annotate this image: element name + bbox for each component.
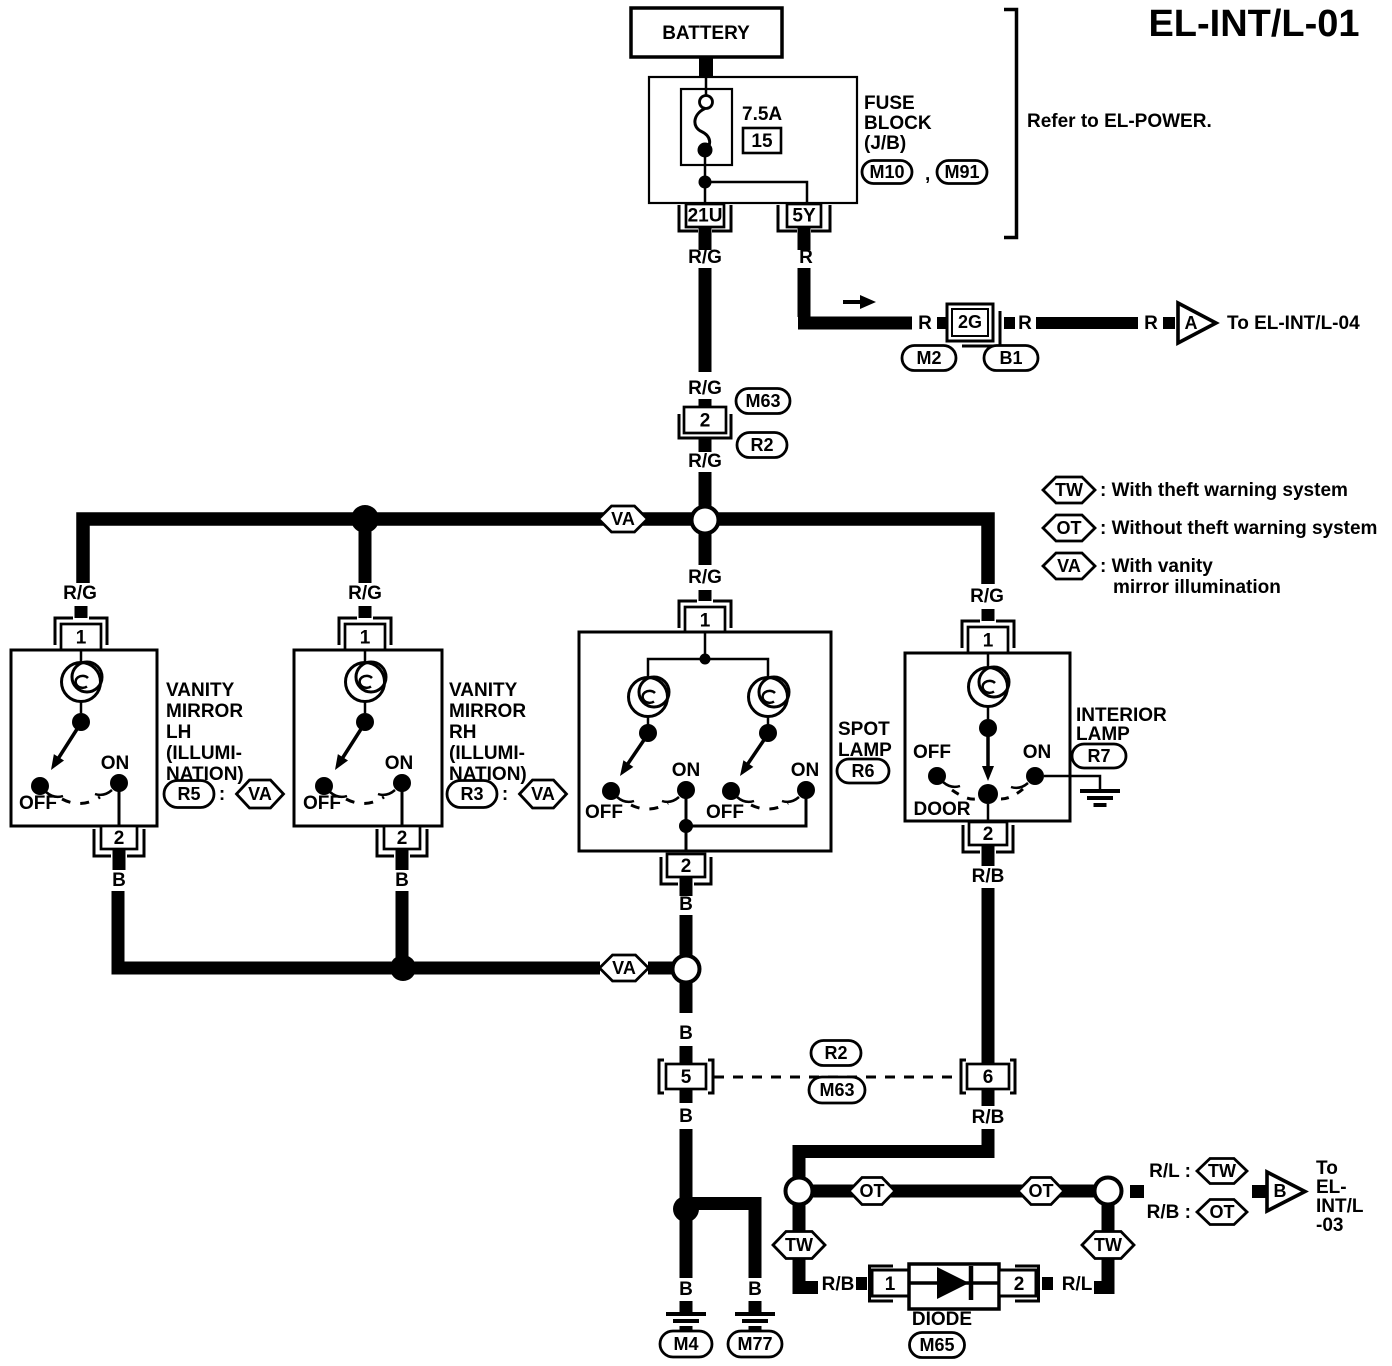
svg-text:VA: VA bbox=[611, 509, 635, 529]
connector pin 2 LH vanity bbox=[94, 826, 144, 856]
ON contacts common wire bbox=[686, 790, 806, 851]
svg-text:R/B: R/B bbox=[822, 1274, 855, 1295]
option VA for R3 bbox=[520, 780, 567, 808]
svg-text:(J/B): (J/B) bbox=[864, 133, 906, 154]
off-page arrow A bbox=[1178, 303, 1216, 343]
svg-text:: With vanity: : With vanity bbox=[1100, 556, 1213, 577]
svg-text:2: 2 bbox=[1014, 1274, 1025, 1295]
OFF contact bbox=[31, 777, 49, 795]
switch pivot right bbox=[759, 724, 777, 742]
svg-text:ON: ON bbox=[672, 760, 701, 781]
wire B down bbox=[680, 1129, 693, 1198]
svg-text:R/G: R/G bbox=[348, 583, 382, 604]
svg-text:M4: M4 bbox=[673, 1334, 698, 1354]
diode M65 bbox=[870, 1264, 1039, 1309]
svg-text:M63: M63 bbox=[745, 391, 780, 411]
connector label R2 bbox=[737, 433, 787, 458]
wire R/B elbow to splice bbox=[799, 1129, 988, 1177]
splice circle left bbox=[786, 1178, 813, 1205]
wire TW branch right bbox=[1094, 1205, 1108, 1288]
svg-text:LH: LH bbox=[166, 722, 191, 743]
svg-text:OT: OT bbox=[1210, 1202, 1235, 1222]
svg-text:VANITY: VANITY bbox=[449, 680, 518, 701]
connector pin 1 spot lamp bbox=[679, 601, 731, 633]
svg-text:TW: TW bbox=[1208, 1161, 1236, 1181]
stub square bbox=[856, 1277, 867, 1290]
svg-text:: With theft warning system: : With theft warning system bbox=[1100, 480, 1348, 501]
connector pin 2 interior lamp bbox=[963, 822, 1013, 852]
svg-text:FUSE: FUSE bbox=[864, 93, 915, 114]
legend TW symbol bbox=[1043, 477, 1095, 503]
OFF contact left bbox=[602, 782, 620, 800]
connector pin 1 LH vanity bbox=[55, 618, 107, 650]
svg-text:OT: OT bbox=[860, 1181, 885, 1201]
DOOR contact common bbox=[978, 784, 998, 804]
svg-text:VANITY: VANITY bbox=[166, 680, 235, 701]
svg-text:R/G: R/G bbox=[688, 247, 722, 268]
junction dot spot lamp bbox=[700, 654, 711, 665]
wire R bbox=[1036, 317, 1138, 329]
ON contact right bbox=[797, 781, 815, 799]
svg-text:A: A bbox=[1185, 313, 1198, 333]
option VA for R5 bbox=[237, 780, 284, 808]
svg-text:R2: R2 bbox=[824, 1043, 847, 1063]
svg-text:R/B: R/B bbox=[972, 866, 1005, 887]
ON contact left bbox=[677, 781, 695, 799]
svg-text:B: B bbox=[679, 1106, 693, 1127]
wire TW branch left bbox=[799, 1205, 818, 1288]
svg-text:R/B: R/B bbox=[972, 1107, 1005, 1128]
stub square bbox=[1252, 1185, 1266, 1198]
bus B bottom left bbox=[118, 891, 600, 968]
svg-text:OFF: OFF bbox=[303, 793, 341, 814]
connector label M65 bbox=[910, 1333, 965, 1358]
bulb spot lamp right bbox=[749, 677, 790, 717]
wire to 5Y inside fuse block bbox=[705, 182, 807, 203]
option TW right bbox=[1082, 1232, 1134, 1259]
splice circle right bbox=[1095, 1178, 1122, 1205]
connector label M63 bbox=[809, 1077, 865, 1103]
svg-text:1: 1 bbox=[360, 628, 371, 649]
switch arm with arrow bbox=[340, 726, 363, 762]
svg-text:B: B bbox=[395, 870, 409, 891]
svg-text:B1: B1 bbox=[999, 348, 1022, 368]
wire R/G trunk bbox=[699, 268, 712, 372]
wire stub bbox=[699, 438, 712, 452]
bus R/G top bbox=[83, 519, 988, 584]
svg-text:2: 2 bbox=[681, 856, 692, 877]
connector label M63 bbox=[736, 389, 790, 414]
direction arrow bbox=[843, 295, 876, 309]
connector label M2 bbox=[902, 346, 956, 371]
wire stub bbox=[396, 849, 409, 870]
junction dot top bus bbox=[351, 505, 379, 533]
wire stub bbox=[113, 849, 126, 870]
svg-text:VA: VA bbox=[531, 784, 555, 804]
fuse block J/B bbox=[649, 77, 857, 203]
svg-text:R6: R6 bbox=[851, 761, 874, 781]
svg-text:VA: VA bbox=[1057, 556, 1081, 576]
wire ON to ground bbox=[1044, 776, 1100, 790]
splice circle top bus bbox=[692, 507, 719, 534]
svg-text:: Without theft warning syste: : Without theft warning system bbox=[1100, 518, 1377, 539]
svg-text:R/B :: R/B : bbox=[1147, 1202, 1191, 1223]
connector label R7 bbox=[1072, 744, 1126, 768]
svg-text:B: B bbox=[112, 870, 126, 891]
ground M77 bbox=[735, 1314, 775, 1328]
svg-text:(ILLUMI-: (ILLUMI- bbox=[449, 743, 525, 764]
ON contact bbox=[1026, 767, 1044, 785]
svg-text:1: 1 bbox=[700, 611, 711, 632]
ground stub M77 bbox=[749, 1301, 762, 1313]
svg-text:,: , bbox=[925, 164, 930, 185]
svg-text:OFF: OFF bbox=[913, 742, 951, 763]
svg-text:R3: R3 bbox=[460, 784, 483, 804]
connector pin 1 interior lamp bbox=[962, 621, 1014, 653]
stub square bbox=[937, 317, 948, 329]
svg-text:INT/L: INT/L bbox=[1316, 1196, 1364, 1217]
svg-text:ON: ON bbox=[1023, 742, 1052, 763]
svg-text:OT: OT bbox=[1057, 518, 1082, 538]
component box RH vanity bbox=[294, 650, 442, 826]
connector label M10 bbox=[862, 161, 912, 184]
connector 2G bbox=[947, 304, 1000, 346]
bulb RH vanity bbox=[346, 662, 387, 702]
dashed switch arc bbox=[62, 797, 100, 804]
wire B to M77 ground bbox=[686, 1204, 755, 1279]
wire stub bbox=[680, 1089, 693, 1103]
legend VA symbol bbox=[1043, 553, 1095, 579]
svg-text:MIRROR: MIRROR bbox=[449, 701, 526, 722]
junction dot ON common bbox=[679, 819, 693, 833]
ON contact bbox=[393, 774, 411, 792]
svg-text:M2: M2 bbox=[916, 348, 941, 368]
connector label R5 bbox=[164, 781, 214, 808]
wire stub bbox=[680, 877, 693, 896]
bulb spot lamp left bbox=[629, 677, 670, 717]
svg-text:1: 1 bbox=[76, 628, 87, 649]
ground stub M4 bbox=[680, 1301, 693, 1313]
fuse 7.5A 15 bbox=[681, 78, 732, 203]
svg-text:DOOR: DOOR bbox=[914, 799, 971, 820]
svg-text:DIODE: DIODE bbox=[912, 1309, 972, 1330]
svg-text:2: 2 bbox=[397, 828, 408, 849]
splice circle bottom bus bbox=[673, 956, 700, 983]
svg-text::: : bbox=[502, 784, 508, 805]
svg-text:INTERIOR: INTERIOR bbox=[1076, 705, 1167, 726]
svg-text:M91: M91 bbox=[944, 162, 979, 182]
stub square bbox=[1042, 1277, 1053, 1290]
svg-text:R: R bbox=[1144, 313, 1158, 334]
dashed switch arc bbox=[346, 797, 384, 804]
svg-text:BLOCK: BLOCK bbox=[864, 113, 932, 134]
battery bbox=[631, 8, 782, 57]
option VA on bus bbox=[599, 506, 648, 532]
svg-text:1: 1 bbox=[983, 631, 994, 652]
OFF contact right bbox=[722, 782, 740, 800]
component box LH vanity bbox=[11, 650, 157, 826]
svg-text:2G: 2G bbox=[958, 312, 982, 332]
wire stub interior bbox=[982, 609, 995, 621]
svg-text:R/L: R/L bbox=[1062, 1274, 1093, 1295]
svg-text:RH: RH bbox=[449, 722, 476, 743]
option OT bbox=[849, 1178, 895, 1205]
svg-text:R: R bbox=[799, 247, 813, 268]
stub square bbox=[1163, 317, 1175, 329]
svg-text:21U: 21U bbox=[688, 206, 723, 227]
connector pin 1 RH vanity bbox=[339, 618, 391, 650]
svg-text:To EL-INT/L-04: To EL-INT/L-04 bbox=[1227, 313, 1360, 334]
OFF contact bbox=[928, 767, 946, 785]
switch pivot left bbox=[639, 724, 657, 742]
wire R/G to spot lamp bbox=[699, 534, 712, 565]
svg-text:OT: OT bbox=[1029, 1181, 1054, 1201]
bracket refer to EL-POWER bbox=[1004, 10, 1017, 238]
svg-text:R7: R7 bbox=[1087, 746, 1110, 766]
wire stub LH bbox=[75, 606, 88, 618]
svg-text:R/G: R/G bbox=[688, 451, 722, 472]
svg-text:2: 2 bbox=[983, 824, 994, 845]
svg-text:TW: TW bbox=[1055, 480, 1083, 500]
switch pivot dot bbox=[356, 713, 374, 731]
connector label R2 bbox=[811, 1041, 861, 1066]
connector 2 (M63/R2) bbox=[679, 407, 731, 438]
wire stub 5Y bbox=[798, 228, 811, 250]
wire stub bbox=[699, 399, 712, 407]
svg-text:R/L :: R/L : bbox=[1149, 1161, 1191, 1182]
legend OT symbol bbox=[1043, 515, 1095, 541]
switch arm with arrow bbox=[56, 726, 79, 762]
svg-text:OFF: OFF bbox=[19, 793, 57, 814]
svg-text:M77: M77 bbox=[737, 1334, 772, 1354]
svg-text:M10: M10 bbox=[869, 162, 904, 182]
bulb interior lamp bbox=[969, 667, 1010, 707]
svg-text:B: B bbox=[748, 1279, 762, 1300]
svg-text:ON: ON bbox=[101, 753, 130, 774]
fuse number 15 box bbox=[743, 128, 781, 153]
bus stub to splice bbox=[648, 962, 673, 975]
wire stub bbox=[699, 590, 712, 601]
svg-text:R/G: R/G bbox=[970, 586, 1004, 607]
svg-text:1: 1 bbox=[885, 1274, 896, 1295]
switch pivot dot bbox=[72, 713, 90, 731]
svg-text:MIRROR: MIRROR bbox=[166, 701, 243, 722]
option TW left bbox=[773, 1232, 825, 1259]
svg-text:mirror illumination: mirror illumination bbox=[1113, 577, 1281, 598]
ground label M4 bbox=[660, 1331, 712, 1357]
svg-text:B: B bbox=[1274, 1181, 1287, 1201]
connector pin 2 RH vanity bbox=[377, 826, 427, 856]
svg-text:2: 2 bbox=[700, 411, 711, 432]
wire R/B interior down bbox=[982, 888, 995, 1064]
dashed connector link 5-6 bbox=[714, 1076, 959, 1079]
connector label B1 bbox=[984, 346, 1038, 371]
wire B RH vanity down bbox=[396, 891, 409, 968]
terminal 21U bbox=[679, 204, 731, 231]
svg-text:R: R bbox=[1018, 313, 1032, 334]
svg-text:EL-INT/L-01: EL-INT/L-01 bbox=[1148, 3, 1359, 45]
svg-text:5Y: 5Y bbox=[792, 206, 816, 227]
stub square bbox=[1004, 317, 1015, 329]
svg-text:B: B bbox=[679, 1023, 693, 1044]
option OT for R/B bbox=[1197, 1200, 1247, 1225]
svg-text:TW: TW bbox=[785, 1235, 813, 1255]
wire B to M4 ground bbox=[680, 1216, 693, 1278]
svg-text:VA: VA bbox=[248, 784, 272, 804]
svg-text:15: 15 bbox=[751, 131, 773, 152]
svg-text:R5: R5 bbox=[177, 784, 200, 804]
svg-text:Refer to EL-POWER.: Refer to EL-POWER. bbox=[1027, 111, 1212, 132]
wire stub bbox=[982, 1089, 995, 1106]
ground label M77 bbox=[728, 1331, 782, 1357]
svg-text:2: 2 bbox=[114, 828, 125, 849]
svg-text:7.5A: 7.5A bbox=[742, 104, 782, 125]
junction dot bottom bus bbox=[390, 955, 416, 981]
branch wires to bulbs bbox=[648, 659, 768, 678]
svg-text:BATTERY: BATTERY bbox=[662, 23, 750, 44]
svg-text:OFF: OFF bbox=[706, 802, 744, 823]
OFF contact bbox=[315, 777, 333, 795]
wire stub 21U bbox=[699, 228, 712, 250]
stub square bbox=[1130, 1185, 1144, 1198]
svg-text:6: 6 bbox=[983, 1067, 994, 1088]
ON contact bbox=[110, 774, 128, 792]
svg-text:OFF: OFF bbox=[585, 802, 623, 823]
wire stub bbox=[982, 845, 995, 866]
bulb LH vanity bbox=[62, 662, 103, 702]
terminal 5Y bbox=[778, 204, 830, 231]
svg-text:ON: ON bbox=[791, 760, 820, 781]
svg-text:R/G: R/G bbox=[688, 378, 722, 399]
svg-text:VA: VA bbox=[612, 958, 636, 978]
svg-text::: : bbox=[219, 784, 225, 805]
svg-text:R/G: R/G bbox=[688, 567, 722, 588]
svg-text:R2: R2 bbox=[750, 435, 773, 455]
svg-text:B: B bbox=[679, 894, 693, 915]
component box interior lamp bbox=[905, 653, 1070, 821]
wire splice to splice bbox=[813, 1185, 1094, 1198]
junction dot B ground split bbox=[673, 1196, 699, 1222]
svg-text:TW: TW bbox=[1094, 1235, 1122, 1255]
svg-text:-03: -03 bbox=[1316, 1215, 1343, 1236]
connector 6 bbox=[961, 1060, 1015, 1093]
wire R/G to bus bbox=[699, 472, 712, 507]
svg-text:EL-: EL- bbox=[1316, 1177, 1347, 1198]
svg-text:M65: M65 bbox=[919, 1335, 954, 1355]
svg-text:R/G: R/G bbox=[63, 583, 97, 604]
wire stub bbox=[680, 1046, 693, 1064]
svg-text:B: B bbox=[679, 1279, 693, 1300]
ground M4 bbox=[666, 1314, 706, 1328]
connector label R6 bbox=[837, 759, 889, 783]
wire B below splice bbox=[680, 983, 693, 1013]
svg-text:ON: ON bbox=[385, 753, 414, 774]
svg-text:R: R bbox=[918, 313, 932, 334]
connector 5 bbox=[659, 1060, 713, 1093]
junction in fuse block bbox=[699, 176, 712, 189]
svg-text:5: 5 bbox=[681, 1067, 692, 1088]
connector label R3 bbox=[447, 781, 497, 808]
option VA bottom bus bbox=[600, 955, 649, 981]
wire stub RH bbox=[359, 606, 372, 618]
option TW for R/L bbox=[1197, 1159, 1247, 1184]
connector label M91 bbox=[937, 161, 987, 184]
wire B spot lamp down bbox=[680, 915, 693, 955]
ground interior lamp bbox=[1080, 791, 1120, 805]
wire R/G drop RH vanity bbox=[359, 519, 372, 583]
svg-text:SPOT: SPOT bbox=[838, 719, 890, 740]
svg-text:(ILLUMI-: (ILLUMI- bbox=[166, 743, 242, 764]
wire battery to fuse block bbox=[699, 57, 713, 78]
option OT bbox=[1018, 1178, 1064, 1205]
wire R from 5Y bbox=[798, 268, 912, 323]
connector pin 2 spot lamp bbox=[661, 854, 711, 884]
switch pivot dot bbox=[979, 719, 997, 737]
svg-text:M63: M63 bbox=[819, 1080, 854, 1100]
component box spot lamp bbox=[579, 632, 831, 851]
svg-text:LAMP: LAMP bbox=[1076, 724, 1130, 745]
svg-text:To: To bbox=[1316, 1158, 1338, 1179]
off-page arrow B bbox=[1267, 1172, 1305, 1211]
